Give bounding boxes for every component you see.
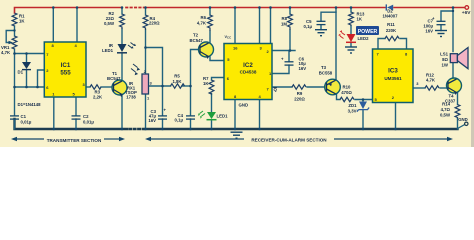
ground for C7: [435, 31, 447, 37]
svg-text:R11: R11: [387, 22, 395, 27]
transistor T1 BC547: [112, 80, 127, 95]
wire: top rail red right segment: [146, 7, 386, 9]
svg-text:T3: T3: [321, 65, 327, 70]
resistor R6: [208, 15, 213, 31]
wire: top rail red left segment: [15, 8, 122, 14]
resistor R14: [455, 105, 460, 119]
resistor R9: [292, 85, 306, 89]
red LED2 power indicator: [347, 34, 356, 42]
svg-text:0,5W: 0,5W: [104, 21, 115, 26]
wire: IC1 pin3 to R3 to T1 base: [86, 86, 90, 88]
svg-text:CD4538: CD4538: [240, 70, 257, 75]
svg-text:220Ω: 220Ω: [294, 97, 305, 102]
svg-text:IC3: IC3: [388, 68, 398, 75]
wire: IC3 pin2 down: [395, 103, 397, 130]
svg-text:2,2K: 2,2K: [93, 95, 103, 100]
svg-text:GND: GND: [458, 117, 468, 122]
svg-text:+6V: +6V: [462, 10, 471, 16]
wire: C7 top L: [441, 11, 453, 21]
svg-text:LS1: LS1: [440, 52, 448, 57]
svg-text:0,1µ: 0,1µ: [304, 24, 313, 29]
wire: C1 column: [14, 87, 16, 116]
wire: pin6 line: [15, 86, 45, 88]
POWER box: [356, 26, 379, 35]
svg-text:R8: R8: [282, 16, 288, 21]
resistor R10: [340, 97, 354, 101]
wire: R13 column: [350, 8, 352, 13]
diode D1: [22, 62, 31, 69]
svg-text:8Ω: 8Ω: [442, 57, 448, 62]
IC2 CD4538: [224, 44, 272, 100]
svg-text:ZD1: ZD1: [348, 103, 357, 108]
wire: IC2 pin4 down: [259, 100, 261, 130]
svg-text:1738: 1738: [126, 95, 136, 100]
IC1 555 timer: [44, 42, 86, 97]
wire: GND diagonal: [458, 125, 465, 129]
wire: bottom rail dotted gap: [130, 128, 144, 130]
svg-text:TRANSMITTER SECTION: TRANSMITTER SECTION: [47, 138, 102, 143]
capacitor C6 electrolytic: [285, 62, 294, 65]
svg-text:220Ω: 220Ω: [149, 21, 160, 26]
resistor R7: [209, 80, 214, 94]
resistor R11: [385, 36, 399, 40]
wire: bottom ground rail receiver: [145, 128, 458, 130]
svg-text:BC547: BC547: [107, 76, 121, 81]
wire: IC3 pin3 to R12: [413, 87, 425, 89]
svg-text:4,7K: 4,7K: [1, 50, 11, 55]
wire: C4 branch: [190, 86, 192, 116]
svg-text:3,3V: 3,3V: [348, 108, 357, 113]
wire: R4 column to TSOP pin2: [145, 8, 147, 16]
svg-text:IC1: IC1: [61, 62, 71, 69]
wire: T2 emitter to IC2 pin5: [210, 57, 224, 61]
wire: IC2 pin7 to R9: [272, 86, 292, 88]
svg-text:T2: T2: [193, 33, 199, 38]
transistor T4 C337: [447, 78, 462, 93]
wire: R2 LED T1 column: [121, 8, 123, 15]
wire: bottom ground rail transmitter: [15, 119, 128, 129]
resistor R5: [171, 84, 185, 88]
svg-text:LED2: LED2: [358, 36, 370, 41]
wire: VR1 wiper loop: [6, 31, 14, 43]
svg-text:R5: R5: [174, 74, 180, 79]
zener ZD1: [359, 102, 367, 110]
ground for LED2: [345, 47, 357, 53]
transistor T3 BC558: [325, 79, 341, 95]
svg-text:R14: R14: [442, 102, 450, 107]
wire: TSOP pin1 down: [145, 94, 147, 129]
wire: IC2 pin6 to R7: [212, 78, 225, 81]
svg-text:LED1: LED1: [102, 48, 114, 53]
svg-text:R6: R6: [201, 15, 207, 20]
wire: IC1 pin8 to rail: [52, 8, 54, 43]
wire: pin2 jog: [38, 70, 45, 87]
resistor R13: [349, 12, 354, 26]
wire: IC2 pin8 down: [234, 100, 236, 130]
wire: IC1 pin5 to C2: [75, 97, 77, 116]
svg-text:0,01µ: 0,01µ: [83, 119, 94, 124]
svg-text:4,7Ω: 4,7Ω: [441, 107, 451, 112]
ground symbol under IC2 pin8: [231, 132, 243, 138]
wire: speaker column: [452, 8, 454, 52]
IR LED1 transmitter: [118, 44, 127, 52]
wire: T2 base column: [191, 50, 200, 87]
wire: R7 to LED1: [211, 94, 213, 113]
svg-text:1,8K: 1,8K: [172, 79, 182, 84]
capacitor C1: [10, 116, 19, 119]
wire: C5 column: [321, 12, 336, 21]
svg-text:LED1: LED1: [217, 114, 229, 119]
wire: IC2 pin2 top to rail: [270, 8, 272, 44]
ground for C5: [315, 30, 327, 36]
svg-text:GND: GND: [239, 102, 249, 107]
svg-text:R9: R9: [297, 91, 303, 96]
svg-text:220K: 220K: [386, 28, 397, 33]
wire: T3 collector to R10: [337, 94, 341, 100]
wire: T3 emitter to rail: [335, 8, 337, 81]
green LED1 receiver: [207, 112, 216, 119]
svg-text:16: 16: [233, 46, 238, 51]
wire: branch to C3 column: [146, 48, 163, 116]
wire: pin7 line: [15, 53, 45, 55]
wire: R9 to T3 base: [307, 86, 327, 88]
IR receiver RX1 TSOP1738: [142, 74, 149, 94]
svg-text:RECEIVER-CUM-ALARM SECTION: RECEIVER-CUM-ALARM SECTION: [251, 137, 327, 142]
wire: R5 right to junction: [182, 85, 191, 87]
svg-text:16V: 16V: [425, 29, 433, 34]
transistor T2 BC547: [199, 42, 214, 57]
label transmitter section: [16, 138, 120, 140]
node: +6V terminal: [465, 6, 469, 10]
svg-text:BC558: BC558: [319, 71, 333, 76]
svg-text:POWER: POWER: [358, 29, 378, 35]
wire: T4 emitter to R14: [457, 93, 459, 105]
resistor R12: [425, 86, 439, 90]
diode D2 series protection: [387, 5, 393, 11]
capacitor C2: [72, 116, 81, 119]
svg-text:4,7K: 4,7K: [197, 21, 207, 26]
wire: D1 branch: [26, 54, 28, 63]
node: GND terminal circle: [465, 122, 468, 125]
wire: IC2 pin3 to rail: [259, 8, 261, 44]
svg-text:1K: 1K: [203, 81, 209, 86]
svg-text:16V: 16V: [299, 66, 307, 71]
wire: IC2 pin2 to R8 C6: [272, 50, 295, 52]
svg-text:4,7K: 4,7K: [426, 78, 436, 83]
svg-text:IC2: IC2: [243, 62, 253, 69]
wire: R8 column: [289, 8, 291, 15]
svg-text:C1: C1: [21, 114, 27, 119]
svg-text:1K: 1K: [19, 19, 25, 24]
svg-text:1W: 1W: [442, 62, 449, 67]
svg-text:C2: C2: [83, 114, 89, 119]
capacitor C7: [437, 21, 446, 24]
wire: IC1 pin4 to rail: [76, 8, 78, 43]
wire: LED1 to rail: [211, 121, 213, 130]
svg-text:16V: 16V: [148, 118, 156, 123]
label receiver-cum-alarm section: [150, 138, 448, 140]
svg-text:0,01µ: 0,01µ: [21, 119, 32, 124]
capacitor C5: [317, 21, 326, 24]
capacitor C3 electrolytic: [158, 116, 167, 119]
wire: C6 loop: [288, 51, 290, 62]
resistor R3: [90, 85, 101, 89]
svg-text:1K: 1K: [357, 17, 363, 22]
svg-text:470Ω: 470Ω: [341, 90, 352, 95]
resistor R2: [120, 14, 125, 29]
wire: IC2 pin16 to rail: [234, 8, 236, 44]
svg-text:0,5W: 0,5W: [440, 113, 451, 118]
capacitor C4: [186, 116, 195, 119]
svg-text:1M: 1M: [281, 22, 287, 27]
resistor R4: [143, 15, 148, 30]
svg-text:D1=1N4148: D1=1N4148: [18, 102, 42, 107]
svg-text:D1: D1: [18, 70, 24, 75]
IC3 UM3561: [373, 49, 414, 103]
speaker LS1: [450, 54, 457, 63]
svg-text:555: 555: [60, 70, 71, 77]
wire: R10 to ZD1 junction to IC3 pin5: [355, 99, 373, 101]
wire: IC3 pin7 R11 pin8 loop: [378, 39, 385, 50]
wire: top rail dotted gap: [126, 7, 144, 9]
svg-text:1N4007: 1N4007: [382, 13, 398, 18]
wire: R1 VR1 column: [14, 26, 16, 36]
svg-text:BC547: BC547: [190, 38, 204, 43]
preset VR1: [12, 36, 17, 49]
svg-text:0,1µ: 0,1µ: [175, 117, 184, 122]
svg-text:UM3561: UM3561: [384, 76, 402, 81]
resistor R1: [12, 13, 17, 26]
wire: TSOP pin3 to R5: [149, 85, 171, 87]
wire: ZD1 column: [362, 100, 364, 102]
wire: R6 column: [209, 8, 211, 16]
resistor R8: [288, 14, 293, 30]
wire: IC1 pin1 down: [53, 97, 55, 129]
